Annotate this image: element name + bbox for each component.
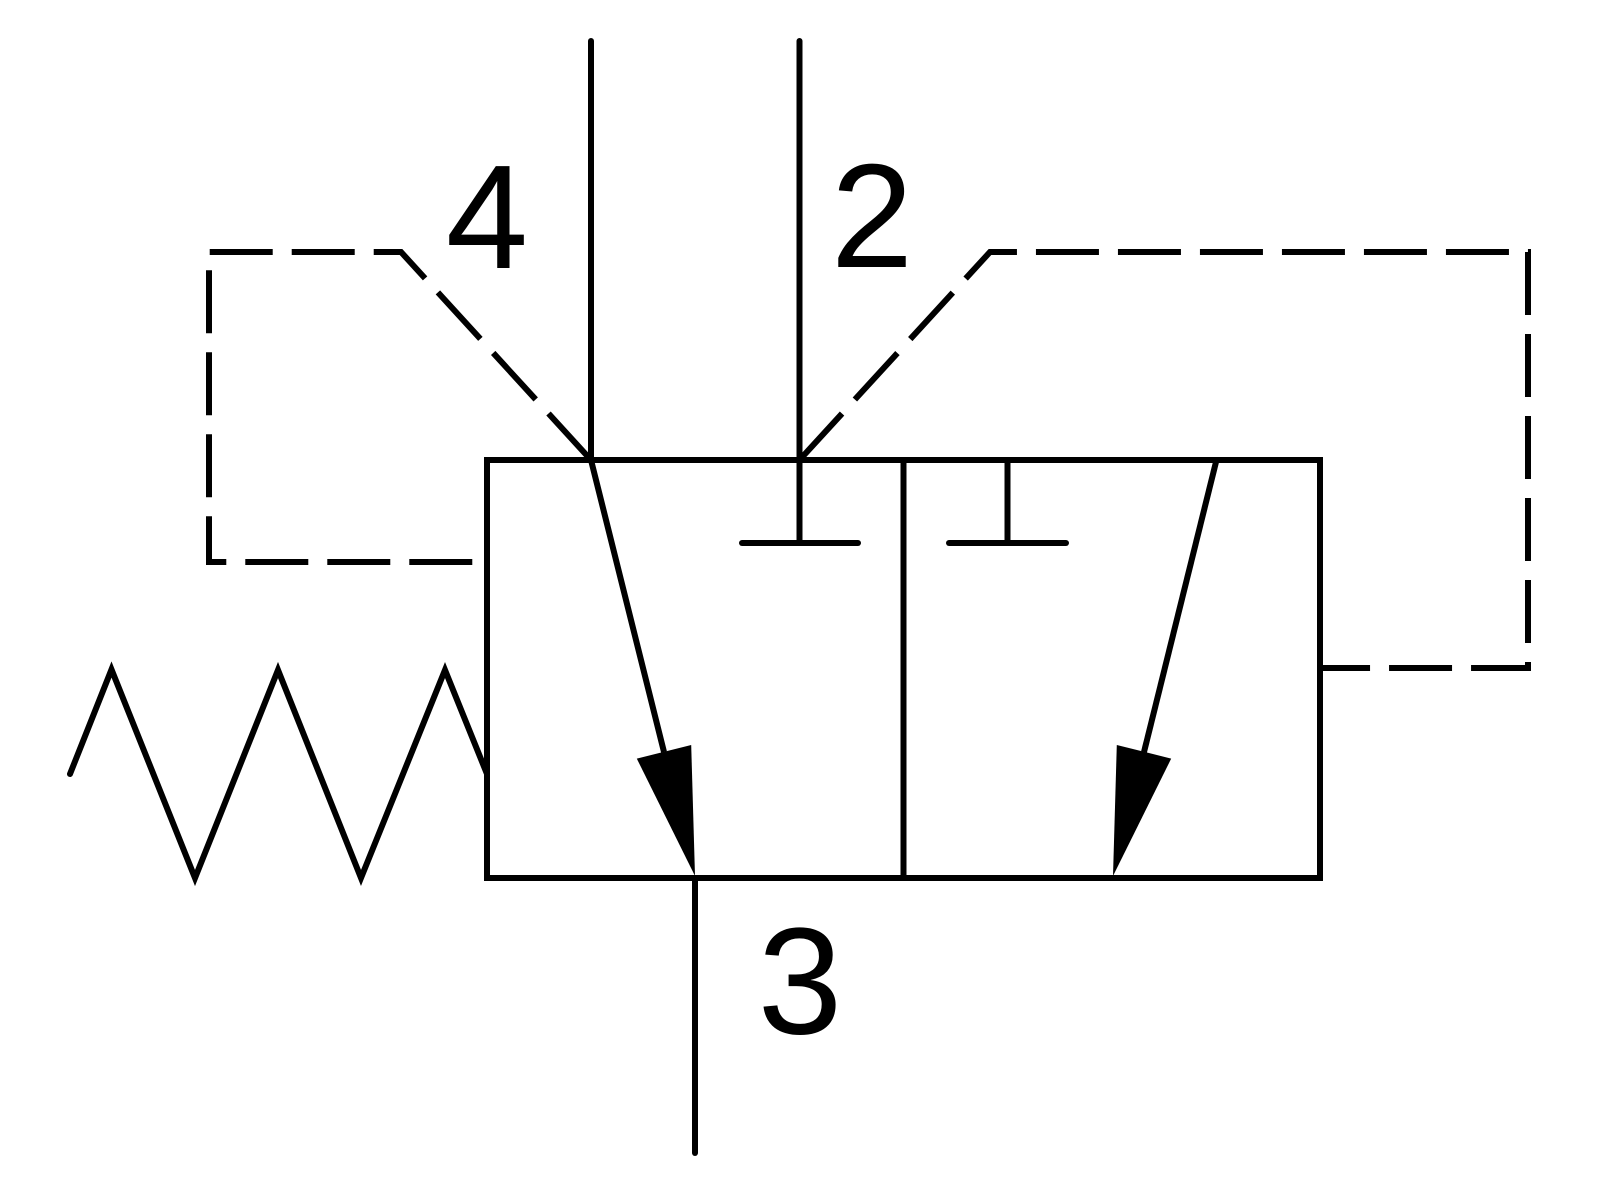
blocked port T right cell bar bbox=[949, 540, 1066, 546]
pilot line dashed right bbox=[800, 252, 1529, 668]
port 4 line bbox=[588, 41, 594, 460]
svg-text:2: 2 bbox=[831, 134, 913, 299]
blocked port T left cell bbox=[742, 540, 858, 546]
pilot line dashed left bbox=[209, 252, 591, 562]
valve body box bbox=[487, 460, 1320, 878]
flow arrow right cell shaft bbox=[1144, 460, 1217, 752]
svg-text:4: 4 bbox=[446, 135, 528, 300]
svg-text:3: 3 bbox=[758, 897, 843, 1067]
valve position divider bbox=[901, 460, 907, 878]
blocked port T right cell stem bbox=[1005, 460, 1011, 541]
flow arrow left cell shaft bbox=[591, 460, 664, 752]
port 3 line bbox=[692, 878, 698, 1153]
port 2 line bbox=[797, 41, 803, 541]
flow arrow left cell head bbox=[637, 745, 695, 876]
flow arrow right cell head bbox=[1113, 745, 1171, 876]
spring bbox=[70, 670, 487, 879]
